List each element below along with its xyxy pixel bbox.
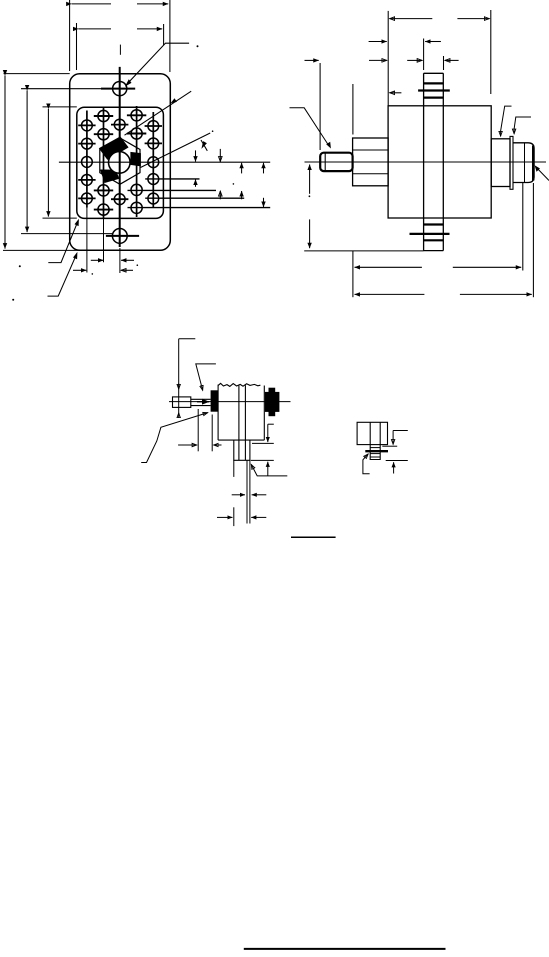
hex nut black band (99, 136, 129, 160)
ext top hole (21, 88, 112, 90)
rear cap inner line (524, 143, 526, 183)
bottom dim row2 left (73, 269, 86, 271)
insert body outline (77, 107, 164, 218)
dim row1 left (369, 41, 387, 43)
left vdim lower (309, 219, 311, 248)
contact D1 (131, 110, 142, 121)
detail1 right vdim lower (267, 462, 269, 476)
contact A4 (82, 175, 93, 186)
view label underline (291, 536, 336, 538)
extension line L5 (128, 207, 271, 209)
hex nut right wedge (130, 152, 141, 167)
contact E2 (148, 138, 159, 149)
detail2 lower ext (386, 460, 408, 462)
bottom dim row2 right (121, 269, 133, 271)
centerline column D (136, 106, 138, 217)
detail1 stem dim row (217, 516, 233, 518)
dim row3 stub (390, 92, 402, 94)
ext flange right top (443, 56, 445, 70)
centerline column C (119, 45, 121, 55)
leader hex note dot (212, 130, 214, 132)
contact D2 (131, 128, 142, 139)
outer flange outline (70, 74, 171, 251)
vdim bar r2b (263, 163, 265, 174)
centerline column A (86, 111, 88, 208)
vdim bar r4 (263, 198, 265, 207)
detail1 grommet right (265, 392, 280, 412)
contact C2 (114, 194, 125, 205)
leader hub stub (501, 106, 512, 136)
detail2 body line2 (379, 422, 381, 444)
ext bottom hole (21, 233, 112, 235)
dim insert height line (47, 109, 49, 217)
ext bottom outer (3, 249, 82, 251)
hex nut outline (100, 138, 140, 184)
hex center hole (109, 152, 131, 174)
detail2 body (357, 422, 387, 444)
contact A5 (82, 193, 93, 204)
leader washer stub (514, 117, 531, 134)
ext bushing top (352, 84, 354, 135)
leader insert corner (48, 222, 78, 263)
ext flange left top (423, 39, 425, 71)
extension line L3 (128, 189, 217, 191)
bushing (353, 138, 389, 186)
dim body width row0 (390, 18, 433, 20)
ext top insert (43, 106, 77, 108)
detail2 stem bands (370, 447, 380, 449)
detail1 lead top (191, 398, 211, 400)
rear washer (510, 136, 513, 189)
detail2 body line1 (369, 422, 371, 444)
vdim bar r1a (195, 150, 197, 161)
ext bushing bottom (352, 251, 354, 298)
ext body right top (490, 10, 492, 94)
tick bottom polarizing hole (106, 235, 139, 237)
detail1 wire right (249, 460, 251, 523)
leader top hole (126, 43, 189, 85)
leader shaft (290, 108, 329, 145)
bottom dim row2 (355, 293, 425, 295)
bottom dim dots (92, 273, 94, 275)
contact B1 (98, 110, 109, 121)
detail1 bottom dim verticals (197, 409, 199, 451)
ext left insert width (76, 23, 78, 70)
detail1 body left edge (217, 385, 219, 441)
vdim bar r1b (219, 149, 221, 162)
contact A1 (82, 120, 93, 131)
detail2 leader (363, 454, 370, 474)
leader shell edge (125, 91, 192, 135)
leader shell dot (12, 299, 14, 301)
contact A2 (82, 138, 93, 149)
vdim bar r3a (195, 180, 197, 187)
horizontal centerline L1 (59, 161, 270, 163)
contact E4 (148, 174, 159, 185)
dim overall height line (4, 76, 6, 249)
contact B4 (98, 185, 109, 196)
SIDE-VIEW (290, 73, 549, 250)
dim row2 seg d (445, 59, 459, 61)
detail1 leader E1 (196, 364, 216, 391)
detail1 body right edge (263, 386, 265, 441)
detail1 terminal outer box (173, 397, 191, 408)
flange right edge (442, 73, 444, 250)
detail1 right ext lower (251, 459, 274, 461)
contact B2 (98, 129, 109, 140)
contact B5 (98, 204, 109, 215)
detail1 wire left (246, 460, 248, 523)
rear cap thick edge (532, 146, 534, 181)
horizontal centerline (305, 161, 547, 163)
ext right outer width (169, 0, 171, 72)
flange bottom edge (424, 250, 444, 252)
FRONT-DIMS (3, 0, 264, 301)
detail1 grommet left (211, 390, 219, 411)
bottom dim row1 left (91, 259, 104, 261)
leader hex branch (201, 140, 207, 151)
rear cap (513, 143, 534, 183)
detail2 panel thick line (365, 450, 388, 452)
dim hole-span height line (26, 90, 28, 232)
detail2 upper dim stub (393, 430, 408, 432)
bushing thread line upper (353, 149, 389, 151)
flange slot bottom marks (424, 223, 444, 225)
bottom dim row1 right (121, 259, 134, 261)
contact A3 (82, 157, 93, 168)
contact D5 (131, 202, 142, 213)
ext cap bottom (532, 183, 534, 297)
left vdim upper (309, 165, 311, 194)
tick top polarizing hole (101, 88, 135, 90)
ext right insert width (163, 24, 165, 45)
contact E5 (148, 193, 159, 204)
detail1 lead bottom (191, 405, 211, 407)
centerline column E (152, 112, 154, 208)
flange top edge (424, 72, 444, 74)
ext left outer width (69, 0, 71, 71)
shaft flat line (324, 154, 326, 171)
left vdim dot (309, 195, 311, 197)
detail1 body wavy top (218, 383, 260, 386)
dim row2 seg b (369, 59, 387, 61)
rear hub (491, 139, 510, 187)
bushing thread line lower (353, 173, 389, 175)
detail1 left vdim line (178, 339, 180, 414)
detail1 stem (234, 440, 250, 460)
detail1 right stub upper (268, 423, 274, 425)
detail1 centerline arrow (197, 401, 209, 403)
vdim bar r2a (241, 163, 243, 174)
vdim dot (233, 183, 235, 185)
contact D4 (131, 184, 142, 195)
contact C1 (114, 119, 125, 130)
detail1 mid dim row (178, 444, 197, 446)
leader hex (141, 133, 211, 168)
vdim bar r3b (219, 191, 221, 199)
detail1 shaft band left (238, 385, 240, 460)
hex nut bottom-left wedge (100, 170, 119, 184)
shaft (320, 153, 352, 171)
ext terminal bottom (522, 183, 524, 271)
detail1 wire ext left (233, 460, 235, 477)
detail1 wire dim row (232, 494, 245, 496)
bottom dim row1 (355, 266, 422, 268)
dim row2 seg c (407, 59, 422, 61)
DETAILS (141, 339, 445, 949)
detail1 shaft band right (244, 385, 246, 460)
ext shaft top (319, 63, 321, 150)
leader cap (537, 168, 549, 180)
ext body left top (387, 11, 389, 106)
detail1 leader E2 (251, 464, 287, 476)
extension line L2 (145, 178, 199, 180)
contact E1 (148, 121, 159, 132)
detail1 centerline (169, 401, 291, 403)
detail2 lower vdim (393, 462, 395, 473)
contact E3 (148, 157, 159, 168)
detail1 left vdim stub (179, 338, 196, 340)
flange slot top marks (424, 82, 444, 84)
dim row2 seg a (305, 59, 319, 61)
flange left edge (423, 73, 425, 250)
detail1 right ext upper (252, 442, 274, 444)
detail1 leader D5 (141, 413, 208, 463)
body (388, 106, 491, 218)
leader insert dot (19, 265, 21, 267)
leader shell corner (48, 255, 77, 296)
dim insert width row (78, 28, 111, 30)
dim row1 right (425, 41, 441, 43)
centerline column B (103, 108, 105, 220)
detail1 left vdim arrows (178, 384, 180, 390)
ext top outer (4, 73, 70, 75)
SIDE-DIMS (304, 10, 533, 297)
detail2 upper ext (382, 445, 397, 447)
polarizing hole bottom (112, 229, 127, 244)
page bottom rule (244, 948, 446, 950)
detail2 stem (370, 445, 380, 460)
polarizing hole top (113, 82, 127, 96)
ext bottom insert (43, 217, 77, 219)
leader note dot (197, 45, 199, 47)
extension line L4 (145, 197, 244, 199)
detail1 body bottom (218, 439, 264, 441)
FRONT-VIEW (59, 45, 270, 273)
dim outer width row (72, 3, 111, 5)
vdim bar r3c (241, 191, 243, 199)
ext flange bottom left (304, 250, 423, 252)
